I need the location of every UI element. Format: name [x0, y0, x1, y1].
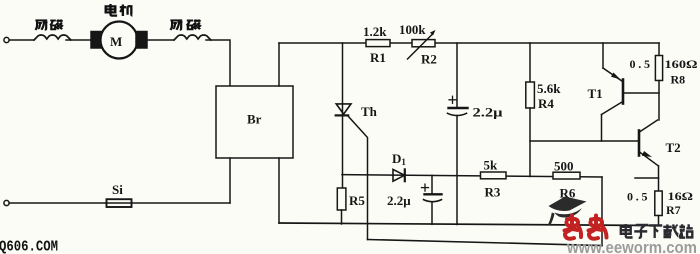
watermark logo graduation cap — [548, 197, 587, 226]
wire R7 to bottom rail — [658, 216, 660, 226]
wire — [9, 202, 106, 204]
bottom rail — [279, 223, 659, 226]
svg-text:Th: Th — [361, 104, 378, 119]
resistor R8 — [655, 56, 662, 81]
bridge rectifier Br box — [216, 86, 293, 158]
svg-text:0.5: 0.5 — [627, 190, 648, 204]
wire thyristor branch from rail — [342, 43, 344, 188]
node rail D1 horizontal — [342, 175, 602, 177]
wire — [147, 39, 174, 41]
thyristor Th — [336, 104, 351, 114]
motor brush right — [136, 32, 147, 49]
plus sign C1 — [449, 96, 456, 103]
inductor L2 field winding — [174, 35, 211, 40]
inductor L1 field winding — [34, 35, 71, 40]
svg-text:5.6k: 5.6k — [537, 81, 561, 96]
svg-text:Q606.COM: Q606.COM — [0, 240, 58, 254]
svg-text:R5: R5 — [349, 193, 365, 208]
top rail — [279, 42, 659, 44]
svg-text:16Ω: 16Ω — [668, 189, 694, 203]
wire R6 right drop — [601, 177, 603, 246]
wire T1 emitter branch from rail — [602, 43, 604, 68]
resistor R6 — [553, 172, 580, 179]
transistor T1 — [603, 68, 622, 81]
resistor R7 — [655, 191, 662, 216]
svg-text:500: 500 — [554, 159, 574, 174]
svg-text:Si: Si — [112, 182, 123, 197]
capacitor C1 2.2u electrolytic — [449, 107, 468, 109]
wire R5 to bottom rail — [341, 210, 343, 224]
fuse Si — [107, 199, 132, 207]
resistor R5 — [337, 188, 346, 210]
svg-text:0.5: 0.5 — [630, 57, 651, 71]
capacitor C2 2.2u electrolytic — [431, 175, 433, 193]
svg-text:100k: 100k — [399, 22, 426, 37]
wire to bridge top-left — [206, 40, 230, 86]
svg-text:T2: T2 — [666, 140, 681, 155]
svg-text:M: M — [110, 34, 122, 49]
label lici 1 (field) hand-drawn — [35, 19, 62, 29]
svg-text:2.2μ: 2.2μ — [387, 193, 411, 208]
wire bridge top-right to top rail — [278, 43, 280, 86]
svg-text:2.2μ: 2.2μ — [473, 105, 504, 120]
svg-text:1.2k: 1.2k — [363, 24, 387, 39]
svg-text:www.eeworm.com: www.eeworm.com — [566, 238, 697, 254]
wire — [132, 202, 230, 204]
svg-text:160Ω: 160Ω — [665, 57, 698, 71]
wire R4 branch from rail — [529, 43, 531, 82]
label lici 2 (field) hand-drawn — [170, 19, 200, 29]
svg-text:R2: R2 — [421, 52, 437, 67]
wire R4 bottom to R3 rail — [529, 108, 531, 177]
node T2 base line — [530, 140, 638, 142]
plus sign C2 — [422, 184, 429, 191]
motor M — [101, 22, 138, 59]
wire — [9, 39, 34, 41]
wire top rail corner to R8 — [658, 43, 660, 56]
wire — [66, 39, 91, 41]
wire cap branch from rail — [456, 43, 458, 107]
svg-text:R4: R4 — [538, 96, 554, 111]
watermark dianzixiazaizhan — [621, 224, 693, 238]
terminal top-left — [4, 37, 9, 42]
svg-text:Br: Br — [247, 112, 262, 127]
svg-text:5k: 5k — [484, 158, 499, 173]
thyristor gate wire — [348, 116, 368, 240]
wire bridge bottom-left down — [229, 158, 231, 203]
resistor R2 variable — [412, 40, 435, 47]
resistor R1 — [366, 40, 390, 47]
label dianji (motor) hand-drawn — [106, 4, 133, 16]
resistor R4 — [526, 82, 535, 108]
node tick T2 emitter — [635, 177, 659, 179]
svg-text:R3: R3 — [485, 185, 501, 200]
wire bridge bottom-right to bottom rail — [278, 158, 280, 223]
svg-text:R7: R7 — [666, 203, 681, 217]
svg-text:T1: T1 — [588, 86, 603, 101]
watermark chongchong red — [565, 216, 607, 239]
svg-text:R8: R8 — [671, 73, 686, 87]
gate return bottom rail — [368, 240, 603, 246]
wire R8 bottom / T2 collector node — [658, 81, 660, 121]
terminal bottom-left — [4, 200, 9, 205]
resistor R3 — [481, 172, 507, 179]
svg-text:R1: R1 — [370, 50, 386, 65]
motor brush left — [91, 32, 102, 49]
diode D1 — [393, 169, 405, 181]
transistor T2 — [640, 120, 658, 132]
